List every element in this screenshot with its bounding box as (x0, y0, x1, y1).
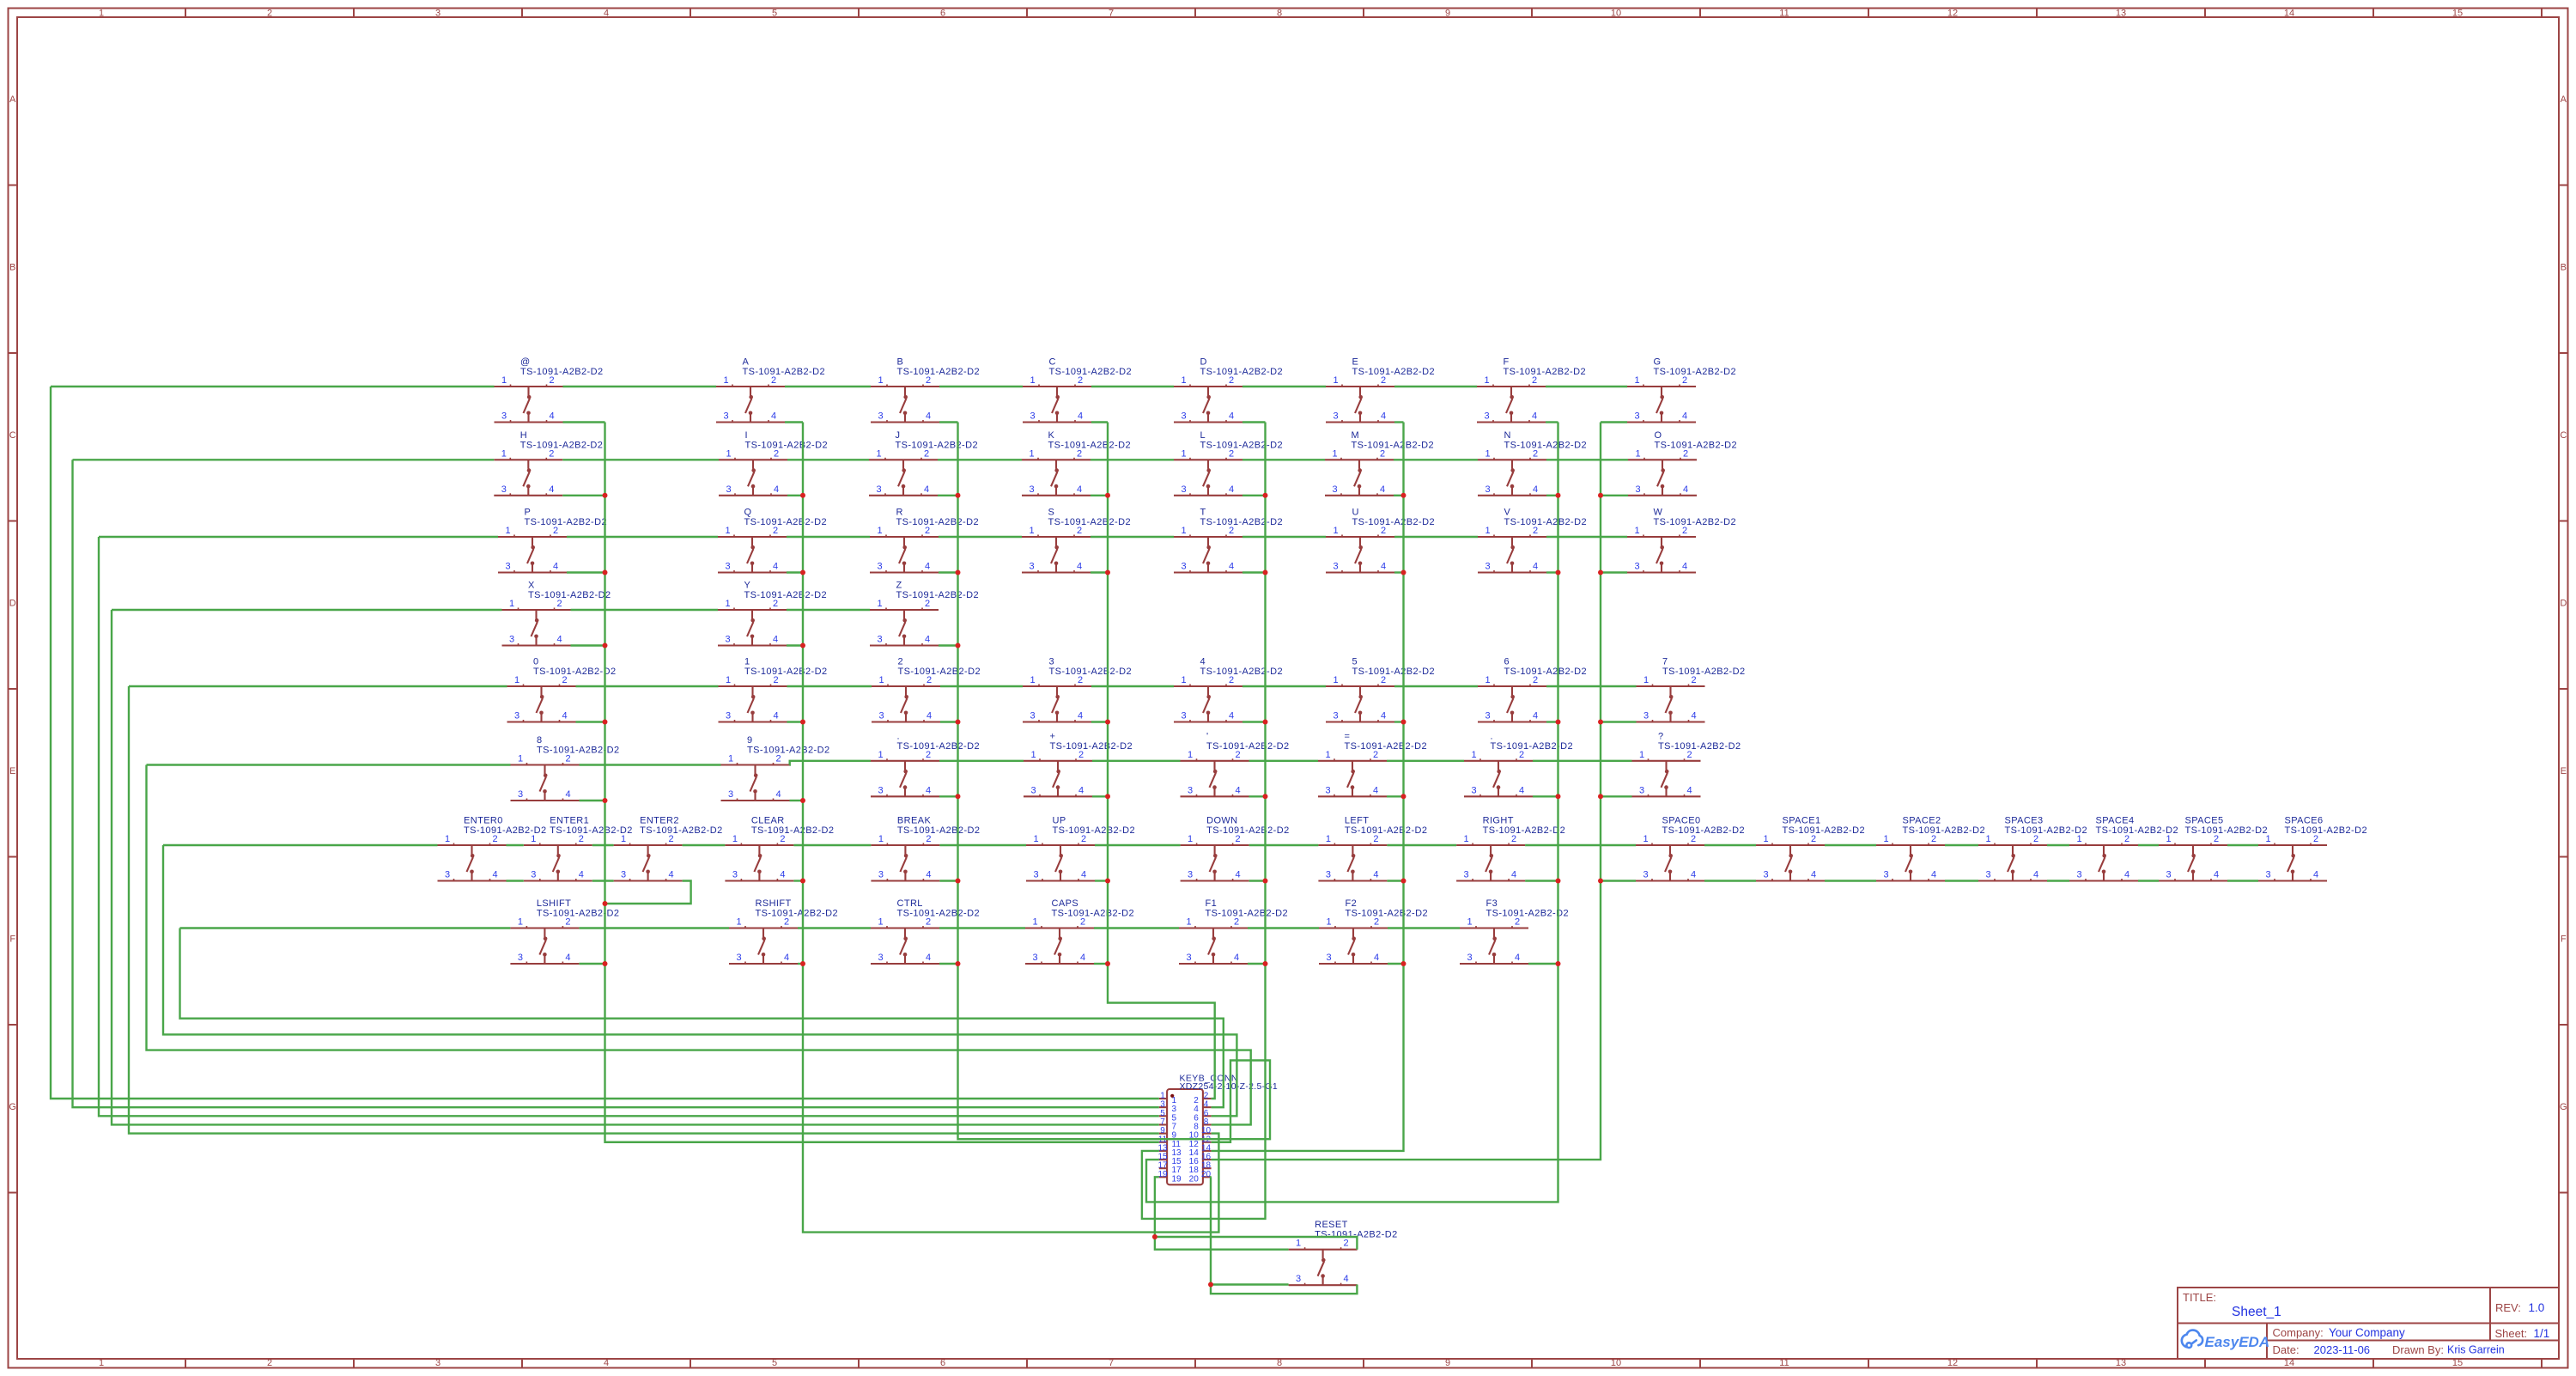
svg-text:1: 1 (2166, 834, 2171, 844)
svg-text:TS-1091-A2B2-D2: TS-1091-A2B2-D2 (528, 590, 611, 600)
svg-text:SPACE0: SPACE0 (1662, 816, 1701, 826)
svg-text:4: 4 (773, 711, 778, 721)
svg-text:3: 3 (1484, 411, 1489, 422)
wire 3 pin4 to column4 (1091, 721, 1108, 722)
frame row tick C right (2559, 521, 2568, 522)
wire 1 pin4 to column2 (787, 721, 804, 722)
svg-text:J: J (896, 430, 901, 441)
junction at 1473.5,927.3 (1263, 794, 1268, 799)
frame column tick 11 bottom (1868, 1359, 1869, 1368)
junction at 1410,1495.5 (1208, 1282, 1213, 1288)
frame row tick F left (9, 1024, 18, 1026)
svg-text:10: 10 (1611, 9, 1621, 19)
svg-text:TS-1091-A2B2-D2: TS-1091-A2B2-D2 (2185, 825, 2269, 836)
svg-text:4: 4 (925, 562, 930, 572)
svg-text:SPACE1: SPACE1 (1783, 816, 1821, 826)
svg-text:4: 4 (1380, 484, 1385, 495)
svg-text:3: 3 (509, 635, 514, 645)
switch R (870, 508, 979, 573)
svg-text:D: D (2560, 598, 2567, 608)
switch = (row6 col6) (1318, 731, 1427, 796)
svg-text:1: 1 (518, 917, 523, 928)
svg-text:F1: F1 (1206, 898, 1218, 909)
wire BREAK pin4 to column3 (939, 880, 957, 881)
svg-text:1: 1 (1181, 375, 1186, 386)
svg-text:1: 1 (531, 834, 536, 844)
svg-text:Drawn By:: Drawn By: (2392, 1343, 2444, 1356)
svg-text:9: 9 (1445, 9, 1450, 19)
svg-text:4: 4 (1235, 785, 1240, 795)
frame column tick 11 top (1868, 9, 1869, 18)
svg-text:1: 1 (621, 834, 626, 844)
svg-text:1: 1 (505, 526, 510, 536)
svg-text:3: 3 (1030, 711, 1035, 721)
svg-text:6: 6 (1504, 657, 1510, 667)
svg-text:Company:: Company: (2273, 1326, 2324, 1339)
svg-text:3: 3 (501, 411, 507, 422)
switch . (row6 col7) (1464, 731, 1573, 796)
svg-text:TS-1091-A2B2-D2: TS-1091-A2B2-D2 (756, 909, 839, 919)
junction at 1473.5,576.8 (1263, 493, 1268, 498)
wire LSHIFT pin4 to column1 (579, 963, 605, 965)
svg-text:8: 8 (537, 735, 543, 746)
wire A pin4 to column2 (785, 421, 803, 423)
wire RESET pin4 loop (1211, 1285, 1357, 1294)
svg-text:BREAK: BREAK (897, 816, 932, 826)
switch A (716, 357, 825, 423)
svg-text:B: B (2561, 262, 2567, 272)
wire row5 pin1-2 chain (129, 685, 1637, 687)
wire SPACE3-SPACE4 pin3-4 chain (2047, 880, 2069, 881)
svg-text:LSHIFT: LSHIFT (537, 898, 571, 909)
svg-text:TS-1091-A2B2-D2: TS-1091-A2B2-D2 (1345, 825, 1428, 836)
svg-text:3: 3 (518, 953, 523, 963)
svg-text:4: 4 (549, 411, 554, 422)
svg-text:TS-1091-A2B2-D2: TS-1091-A2B2-D2 (1486, 909, 1570, 919)
svg-text:1: 1 (1033, 834, 1038, 844)
svg-text:3: 3 (621, 870, 626, 880)
svg-text:9: 9 (1445, 1358, 1450, 1368)
junction at 704.5,666.5 (603, 570, 608, 575)
svg-text:4: 4 (604, 9, 609, 19)
wire row1 pin1-2 chain (51, 386, 1627, 387)
svg-text:4: 4 (1200, 657, 1206, 667)
svg-text:A: A (2561, 94, 2567, 105)
svg-text:3: 3 (725, 635, 730, 645)
svg-text:1: 1 (1030, 375, 1035, 386)
svg-text:4: 4 (1234, 953, 1239, 963)
svg-text:3: 3 (1296, 1274, 1301, 1284)
svg-text:TS-1091-A2B2-D2: TS-1091-A2B2-D2 (897, 367, 981, 377)
svg-text:4: 4 (925, 635, 930, 645)
switch U (1326, 508, 1435, 573)
svg-text:4: 4 (1081, 870, 1086, 880)
svg-text:4: 4 (924, 484, 929, 495)
svg-text:I: I (745, 430, 748, 441)
svg-text:3: 3 (1029, 484, 1034, 495)
frame row tick F right (2559, 1024, 2568, 1026)
junction at 1864,1025.5 (1598, 879, 1603, 884)
svg-text:4: 4 (2033, 870, 2038, 880)
switch + (row6 col4) (1024, 731, 1133, 796)
junction at 1864,576.8 (1598, 493, 1603, 498)
svg-text:19: 19 (1157, 1170, 1168, 1179)
switch UP (1026, 816, 1135, 881)
svg-text:4: 4 (556, 635, 562, 645)
svg-text:E: E (9, 766, 15, 776)
wire 4 pin4 to column5 (1242, 721, 1266, 722)
svg-text:1: 1 (877, 599, 882, 609)
switch Q (718, 508, 827, 573)
junction at 1864,666.5 (1598, 570, 1603, 575)
svg-text:4: 4 (1381, 562, 1386, 572)
svg-text:13: 13 (2116, 1358, 2126, 1368)
svg-text:1: 1 (725, 599, 730, 609)
switch 8 (511, 735, 620, 801)
wire H pin4 to column1 (562, 495, 605, 496)
wire ENTER0-ENTER1 pin3-4 chain (507, 880, 524, 881)
svg-text:4: 4 (1533, 711, 1538, 721)
wire row5 net to connector pin 9 (129, 686, 1159, 1134)
frame column tick 8 bottom (1363, 1359, 1364, 1368)
svg-text:4: 4 (1811, 870, 1816, 880)
frame column tick 15 bottom (2541, 1359, 2543, 1368)
svg-text:1: 1 (1634, 526, 1639, 536)
svg-text:7: 7 (1109, 9, 1114, 19)
svg-text:TS-1091-A2B2-D2: TS-1091-A2B2-D2 (1200, 517, 1284, 527)
wire + pin4 to column4 (1092, 795, 1108, 797)
svg-text:TS-1091-A2B2-D2: TS-1091-A2B2-D2 (897, 909, 981, 919)
svg-text:TS-1091-A2B2-D2: TS-1091-A2B2-D2 (1206, 909, 1289, 919)
frame column tick 15 top (2541, 9, 2543, 18)
svg-text:3: 3 (514, 711, 519, 721)
svg-text:4: 4 (1381, 411, 1386, 422)
svg-text:4: 4 (1533, 562, 1538, 572)
svg-text:5: 5 (772, 9, 777, 19)
wire O pin3 to column8 (1601, 495, 1628, 496)
svg-text:3: 3 (2265, 870, 2270, 880)
wire F3 pin4 to column7 (1528, 963, 1558, 965)
wire row7 pin1-2 chain (163, 844, 2258, 846)
svg-text:4: 4 (1686, 785, 1692, 795)
svg-text:3: 3 (726, 711, 731, 721)
wire ENTER2 pin4 wrap to column1 (605, 881, 691, 904)
svg-text:3: 3 (876, 484, 881, 495)
svg-text:3: 3 (877, 562, 882, 572)
frame column tick 13 bottom (2204, 1359, 2206, 1368)
svg-text:12: 12 (1947, 9, 1958, 19)
svg-text:4: 4 (926, 411, 931, 422)
junction at 935,932 (800, 798, 805, 803)
svg-text:1: 1 (728, 754, 733, 764)
frame row tick B left (9, 352, 18, 354)
svg-text:4: 4 (1515, 953, 1520, 963)
svg-text:3: 3 (1325, 785, 1330, 795)
svg-text:1: 1 (1333, 375, 1338, 386)
switch P (498, 508, 607, 573)
svg-text:1: 1 (1484, 375, 1489, 386)
junction at 1634.5,666.5 (1401, 570, 1406, 575)
frame row tick G left (9, 1192, 18, 1194)
svg-text:5: 5 (772, 1358, 777, 1368)
svg-text:4: 4 (1373, 870, 1378, 880)
switch ENTER2 (614, 816, 723, 881)
wire 2 pin4 to column3 (940, 721, 958, 722)
svg-text:1: 1 (1181, 448, 1186, 459)
svg-text:3: 3 (726, 484, 731, 495)
svg-text:=: = (1345, 731, 1351, 741)
svg-text:SPACE6: SPACE6 (2285, 816, 2324, 826)
wire K pin4 to column4 (1091, 495, 1108, 496)
svg-text:3: 3 (1029, 562, 1034, 572)
svg-text:9: 9 (747, 735, 753, 746)
svg-text:4: 4 (927, 711, 932, 721)
svg-text:4: 4 (2313, 870, 2318, 880)
svg-text:UP: UP (1053, 816, 1066, 826)
switch B (871, 357, 980, 423)
svg-text:1: 1 (878, 375, 883, 386)
svg-text:1: 1 (1029, 448, 1034, 459)
svg-text:4: 4 (1373, 785, 1378, 795)
svg-text:3: 3 (1634, 562, 1639, 572)
svg-text:1: 1 (725, 526, 730, 536)
svg-text:TS-1091-A2B2-D2: TS-1091-A2B2-D2 (1658, 741, 1741, 752)
svg-text:1: 1 (2076, 834, 2081, 844)
wire E pin4 to column6 (1394, 421, 1404, 423)
wire row8 pin1-2 chain (180, 927, 1461, 928)
wire row1 net to connector pin 1 (51, 387, 1159, 1099)
switch 4 (1174, 657, 1283, 722)
svg-text:3: 3 (1471, 785, 1476, 795)
switch LSHIFT (510, 898, 619, 964)
svg-text:TS-1091-A2B2-D2: TS-1091-A2B2-D2 (1049, 667, 1133, 677)
switch I (719, 430, 828, 496)
svg-text:LEFT: LEFT (1345, 816, 1370, 826)
svg-text:TITLE:: TITLE: (2183, 1291, 2216, 1304)
svg-text:4: 4 (926, 953, 931, 963)
svg-text:4: 4 (771, 411, 776, 422)
wire row3 net to connector pin 5 (99, 537, 1159, 1116)
wire column6 vertical to connector pin 14 (1212, 423, 1404, 1151)
svg-text:4: 4 (492, 870, 497, 880)
svg-text:.: . (897, 731, 900, 741)
switch V (1478, 508, 1587, 573)
svg-text:3: 3 (2076, 870, 2081, 880)
switch . (row6 col3) (871, 731, 980, 796)
svg-text:7: 7 (1109, 1358, 1114, 1368)
svg-text:4: 4 (1078, 711, 1083, 721)
svg-text:B: B (9, 262, 15, 272)
wire . pin4 to column7 (1533, 795, 1558, 797)
svg-text:Z: Z (896, 581, 902, 591)
frame column tick 5 top (858, 9, 860, 18)
frame column tick 10 bottom (1699, 1359, 1701, 1368)
svg-text:C: C (1049, 357, 1056, 368)
svg-text:CAPS: CAPS (1052, 898, 1079, 909)
svg-text:3: 3 (531, 870, 536, 880)
switch BREAK (871, 816, 980, 881)
wire CAPS pin4 to column4 (1094, 963, 1108, 965)
wire S pin4 to column4 (1091, 571, 1108, 573)
svg-text:N: N (1504, 430, 1511, 441)
svg-text:3: 3 (877, 635, 882, 645)
svg-text:TS-1091-A2B2-D2: TS-1091-A2B2-D2 (1654, 517, 1737, 527)
switch SPACE2 (1876, 816, 1985, 881)
svg-text:20: 20 (1201, 1170, 1212, 1179)
junction at 935,666.5 (800, 570, 805, 575)
svg-text:CTRL: CTRL (897, 898, 923, 909)
svg-text:4: 4 (549, 484, 554, 495)
svg-text:4: 4 (1229, 562, 1234, 572)
svg-text:TS-1091-A2B2-D2: TS-1091-A2B2-D2 (897, 741, 981, 752)
svg-text:14: 14 (2284, 9, 2294, 19)
svg-text:3: 3 (1033, 870, 1038, 880)
junction at 1634.5,1025.5 (1401, 879, 1406, 884)
frame row tick G right (2559, 1192, 2568, 1194)
svg-text:1: 1 (501, 448, 507, 459)
svg-text:4: 4 (926, 870, 931, 880)
wire F2 pin4 to column6 (1388, 963, 1404, 965)
svg-text:1: 1 (1181, 526, 1186, 536)
svg-text:1: 1 (732, 834, 738, 844)
svg-text:3: 3 (1643, 711, 1649, 721)
svg-text:3: 3 (1883, 870, 1888, 880)
svg-text:X: X (528, 581, 535, 591)
svg-text:': ' (1206, 731, 1209, 741)
svg-text:TS-1091-A2B2-D2: TS-1091-A2B2-D2 (537, 746, 620, 756)
svg-text:TS-1091-A2B2-D2: TS-1091-A2B2-D2 (1662, 667, 1746, 677)
svg-text:1: 1 (445, 834, 450, 844)
svg-text:4: 4 (1519, 785, 1524, 795)
svg-text:Y: Y (744, 581, 751, 591)
switch SPACE4 (2069, 816, 2178, 881)
wire @ pin4 to column1 (563, 421, 605, 423)
wire column3 vertical to connector pin 12 (958, 423, 1271, 1142)
wire V pin4 to column7 (1546, 571, 1558, 573)
switch 5 (1326, 657, 1435, 722)
junction at 1115.5,751.5 (956, 643, 961, 648)
svg-text:1: 1 (1188, 834, 1193, 844)
svg-text:TS-1091-A2B2-D2: TS-1091-A2B2-D2 (898, 667, 981, 677)
svg-text:3: 3 (1639, 785, 1644, 795)
svg-text:TS-1091-A2B2-D2: TS-1091-A2B2-D2 (743, 367, 826, 377)
svg-text:4: 4 (1533, 484, 1538, 495)
frame column tick 12 bottom (2036, 1359, 2038, 1368)
frame column tick 9 top (1531, 9, 1533, 18)
frame column tick 6 top (1026, 9, 1028, 18)
svg-text:TS-1091-A2B2-D2: TS-1091-A2B2-D2 (1053, 825, 1136, 836)
svg-text:1: 1 (1186, 917, 1191, 928)
frame column tick 1 bottom (185, 1359, 186, 1368)
svg-text:D: D (1200, 357, 1207, 368)
svg-text:3: 3 (1634, 411, 1639, 422)
svg-text:1: 1 (1296, 1239, 1301, 1249)
svg-text:TS-1091-A2B2-D2: TS-1091-A2B2-D2 (1352, 367, 1436, 377)
svg-text:20: 20 (1189, 1174, 1200, 1184)
svg-text:TS-1091-A2B2-D2: TS-1091-A2B2-D2 (525, 517, 608, 527)
svg-text:3: 3 (501, 484, 507, 495)
svg-text:6: 6 (940, 1358, 945, 1368)
wire L pin4 to column5 (1242, 495, 1266, 496)
svg-text:TS-1091-A2B2-D2: TS-1091-A2B2-D2 (1483, 825, 1566, 836)
svg-text:F2: F2 (1346, 898, 1358, 909)
svg-text:TS-1091-A2B2-D2: TS-1091-A2B2-D2 (751, 825, 835, 836)
frame row tick A left (9, 185, 18, 186)
svg-text:4: 4 (1691, 711, 1696, 721)
wire column8 to SPACE0 pin3 (1601, 880, 1636, 881)
wire connector pin 20 to RESET pin 3 (1211, 1177, 1289, 1284)
junction at 704.5,1052 (603, 901, 608, 906)
svg-text:S: S (1048, 508, 1055, 518)
svg-text:3: 3 (1188, 870, 1193, 880)
svg-text:2: 2 (267, 9, 272, 19)
svg-text:3: 3 (878, 711, 884, 721)
switch 1 (719, 657, 828, 722)
frame column tick 8 top (1363, 9, 1364, 18)
wire 7 pin3 to column8 (1601, 721, 1637, 722)
junction at 935,840.5 (800, 720, 805, 725)
switch N (1478, 430, 1587, 496)
svg-text:1: 1 (1326, 834, 1331, 844)
svg-text:4: 4 (1682, 562, 1687, 572)
svg-text:1: 1 (518, 754, 523, 764)
wire ? pin3 to column8 (1601, 795, 1632, 797)
svg-text:R: R (896, 508, 903, 518)
svg-text:4: 4 (669, 870, 674, 880)
svg-text:3: 3 (518, 789, 523, 800)
junction at 1814.5,1025.5 (1556, 879, 1561, 884)
wire column7 vertical to connector pin 15 (1146, 423, 1558, 1202)
svg-text:4: 4 (1381, 711, 1386, 721)
svg-text:3: 3 (723, 411, 728, 422)
svg-text:1: 1 (1485, 448, 1490, 459)
junction at 935,1025.5 (800, 879, 805, 884)
frame column tick 14 bottom (2372, 1359, 2374, 1368)
svg-text:TS-1091-A2B2-D2: TS-1091-A2B2-D2 (1200, 667, 1284, 677)
svg-text:3: 3 (1635, 484, 1640, 495)
wire row8 net to connector pin 4 (180, 928, 1224, 1108)
wire 5 pin4 to column6 (1394, 721, 1404, 722)
frame row tick D right (2559, 688, 2568, 690)
svg-text:4: 4 (1080, 953, 1085, 963)
switch SPACE1 (1756, 816, 1865, 881)
svg-text:F: F (2561, 934, 2567, 944)
svg-text:V: V (1504, 508, 1511, 518)
svg-text:3: 3 (1188, 785, 1193, 795)
switch SPACE3 (1978, 816, 2087, 881)
svg-text:13: 13 (2116, 9, 2126, 19)
svg-text:8: 8 (1277, 1358, 1282, 1368)
wire P pin4 to column1 (567, 571, 605, 573)
svg-text:TS-1091-A2B2-D2: TS-1091-A2B2-D2 (1206, 741, 1290, 752)
svg-text:TS-1091-A2B2-D2: TS-1091-A2B2-D2 (1504, 517, 1588, 527)
frame row tick E left (9, 856, 18, 858)
svg-text:TS-1091-A2B2-D2: TS-1091-A2B2-D2 (1655, 440, 1738, 450)
svg-text:TS-1091-A2B2-D2: TS-1091-A2B2-D2 (537, 909, 620, 919)
svg-text:ENTER0: ENTER0 (464, 816, 503, 826)
svg-text:1: 1 (736, 917, 741, 928)
svg-text:TS-1091-A2B2-D2: TS-1091-A2B2-D2 (744, 590, 828, 600)
svg-text:E: E (1352, 357, 1359, 368)
svg-text:TS-1091-A2B2-D2: TS-1091-A2B2-D2 (1504, 440, 1588, 450)
switch SPACE5 (2159, 816, 2268, 881)
switch F1 (1179, 898, 1288, 964)
svg-text:3: 3 (1467, 953, 1472, 963)
frame column tick 3 bottom (521, 1359, 523, 1368)
wire 9 pin4 to column2 (790, 800, 804, 801)
switch G (1627, 357, 1736, 423)
svg-text:3: 3 (878, 411, 883, 422)
